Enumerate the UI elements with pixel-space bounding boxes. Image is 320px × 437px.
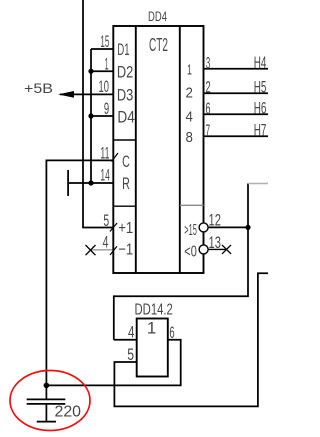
dynamic input slash +1 bbox=[110, 223, 117, 232]
node: capacitor junction bbox=[44, 383, 50, 389]
svg-text:14: 14 bbox=[100, 166, 109, 184]
separator right column bbox=[180, 204, 204, 206]
svg-text:15: 15 bbox=[100, 33, 109, 51]
wire: R pin with terminal bar bbox=[68, 170, 113, 196]
svg-text:D4: D4 bbox=[117, 108, 134, 127]
svg-text:D3: D3 bbox=[117, 86, 133, 105]
no-connect X at pin 13 bbox=[222, 245, 231, 254]
node: junction pin1 bbox=[88, 69, 93, 74]
svg-text:H6: H6 bbox=[254, 100, 267, 118]
svg-text:+5В: +5В bbox=[24, 80, 53, 96]
svg-text:1: 1 bbox=[147, 319, 156, 338]
svg-text:−1: −1 bbox=[118, 242, 133, 259]
svg-text:CT2: CT2 bbox=[149, 35, 168, 55]
output wire pin 7 / H7 bbox=[204, 135, 269, 137]
svg-text:6: 6 bbox=[206, 99, 211, 118]
svg-text:DD4: DD4 bbox=[148, 9, 167, 24]
dynamic input slash C bbox=[112, 153, 119, 162]
output wire pin 6 / H6 bbox=[204, 113, 269, 115]
svg-text:6: 6 bbox=[169, 324, 174, 342]
svg-text:8: 8 bbox=[186, 130, 193, 146]
svg-text:5: 5 bbox=[127, 346, 134, 364]
output wire pin 2 / H5 bbox=[204, 92, 269, 94]
svg-text:C: C bbox=[122, 152, 130, 171]
node: junction pin9 bbox=[88, 113, 93, 118]
wire: carry pin 12 net bbox=[114, 184, 248, 340]
svg-text:9: 9 bbox=[104, 100, 109, 118]
svg-text:2: 2 bbox=[186, 86, 193, 102]
svg-text:10: 10 bbox=[99, 78, 109, 96]
svg-text:H4: H4 bbox=[254, 54, 267, 72]
wire: clock C net from DD14.2 output, corner at left bbox=[46, 160, 113, 385]
svg-text:220: 220 bbox=[55, 403, 82, 420]
op chip DD4 counter body bbox=[113, 26, 203, 273]
separator left column 2 bbox=[113, 205, 136, 207]
wire: count-up clock vertical from top edge to +1 pin bbox=[83, 0, 113, 228]
annotation red ellipse bbox=[10, 371, 90, 431]
svg-text:1: 1 bbox=[105, 56, 109, 74]
svg-text:H7: H7 bbox=[254, 122, 267, 140]
wire: gray stub to right edge bbox=[248, 183, 268, 185]
gate DD14.2 body bbox=[137, 319, 168, 377]
svg-text:5: 5 bbox=[103, 212, 109, 230]
svg-text:11: 11 bbox=[100, 145, 109, 163]
node: junction pin 12 bbox=[245, 225, 250, 230]
node: junction R bbox=[88, 180, 93, 185]
power +5B arrow bbox=[58, 91, 74, 98]
svg-text:1: 1 bbox=[187, 63, 192, 79]
svg-text:4: 4 bbox=[186, 109, 193, 125]
wire: pin 4 (-1) stub not connected bbox=[91, 249, 114, 251]
wire: DD14.2 pin 5 net to right edge bbox=[114, 273, 268, 406]
svg-text:R: R bbox=[122, 174, 130, 193]
dynamic input slash -1 bbox=[110, 246, 117, 255]
wire: +5V line to pin 10 bbox=[60, 93, 113, 95]
wire: borrow pin 13 stub bbox=[208, 248, 226, 250]
wire: DD14.2 pin 4 stub bbox=[114, 339, 137, 341]
inversion bubble pin 13 bbox=[199, 245, 208, 254]
svg-text:7: 7 bbox=[206, 121, 211, 140]
wire: DD14.2 pin 6 output to capacitor node bbox=[46, 340, 180, 386]
svg-text:+1: +1 bbox=[118, 220, 133, 237]
svg-text:H5: H5 bbox=[254, 79, 267, 97]
svg-text:4: 4 bbox=[128, 323, 135, 341]
wire: data bus vertical joining pins 15,1,9,R bbox=[91, 49, 113, 183]
svg-text:>15: >15 bbox=[184, 222, 197, 239]
svg-text:D2: D2 bbox=[117, 63, 133, 82]
inversion bubble pin 12 bbox=[199, 223, 208, 232]
ground bar bbox=[37, 421, 56, 423]
svg-text:2: 2 bbox=[206, 78, 211, 97]
svg-text:4: 4 bbox=[103, 233, 109, 251]
separator left column 1 bbox=[113, 139, 136, 141]
svg-text:D1: D1 bbox=[117, 40, 129, 59]
output wire pin 3 / H4 bbox=[204, 68, 269, 70]
svg-text:DD14.2: DD14.2 bbox=[135, 301, 173, 318]
svg-text:3: 3 bbox=[206, 53, 210, 72]
svg-text:<0: <0 bbox=[184, 244, 197, 261]
no-connect X at pin 4 bbox=[86, 245, 96, 255]
capacitor 220 bbox=[27, 385, 66, 421]
